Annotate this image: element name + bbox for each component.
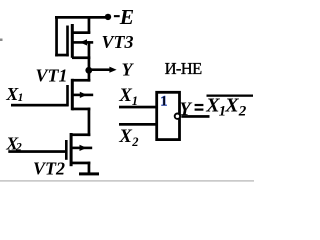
ground <box>79 172 99 175</box>
wire: gate input 2 <box>119 123 156 126</box>
VT1 gate bar <box>66 85 69 106</box>
VT1 channel bar <box>71 79 74 111</box>
wire: horizontal gate feed to VT3 gate bar <box>55 54 68 57</box>
node Y junction dot <box>85 67 92 74</box>
transistor VT3 <box>66 16 133 59</box>
VT1 substrate lead <box>72 94 93 97</box>
label formula Y = X1X2 (NAND output) <box>179 94 253 120</box>
wire: node Y down to VT1 drain <box>88 70 91 81</box>
VT2 gate bar <box>65 140 68 160</box>
VT3 substrate arrow (points left) <box>80 39 87 45</box>
svg-text:VT2: VT2 <box>33 159 65 179</box>
svg-text:VT1: VT1 <box>36 66 68 86</box>
svg-text:VT3: VT3 <box>102 32 134 52</box>
logic gate U1 (NAND box) <box>118 85 209 149</box>
svg-text:1: 1 <box>132 94 138 108</box>
svg-text:E: E <box>119 5 134 29</box>
VT3 drain lead <box>72 31 90 34</box>
wire: output arrow lead to label Y <box>89 68 111 71</box>
VT2 drain lead <box>71 133 91 136</box>
= sign top bar <box>195 104 204 106</box>
inversion bubble <box>175 114 180 119</box>
wire: VT3 substrate/source vertical down to node Y <box>88 41 91 71</box>
wire: input X1 to VT1 gate <box>11 104 69 107</box>
svg-text:X: X <box>118 126 133 147</box>
VT3 gate bar <box>66 26 69 57</box>
svg-text:И-НЕ: И-НЕ <box>165 59 203 78</box>
wire: gate output lead <box>181 115 209 118</box>
VT2 substrate arrow (points right) <box>80 145 87 151</box>
gate box body <box>157 92 180 139</box>
VT1 source lead <box>72 108 90 111</box>
wire: top supply rail to -E <box>55 16 109 19</box>
wire: gate input 1 <box>119 106 156 109</box>
VT3 channel bar <box>71 24 74 58</box>
VT3 source lead <box>72 56 90 59</box>
VT1 substrate arrow (points right) <box>80 92 87 98</box>
wire: input X2 to VT2 gate <box>8 150 67 153</box>
wire: left vertical from rail down to VT3 gate loop <box>55 16 58 56</box>
= sign bottom bar <box>195 109 204 111</box>
svg-text:2: 2 <box>15 141 22 153</box>
scan artifact: faint bottom rule <box>0 180 254 181</box>
VT1 drain lead <box>72 79 90 82</box>
VT2 substrate lead <box>71 147 92 150</box>
wire: VT2 source down to ground <box>88 162 91 174</box>
VT3 substrate lead <box>72 41 93 44</box>
transistor VT1 <box>36 66 94 111</box>
wire: VT3 drain vertical to rail <box>88 16 91 34</box>
wire: VT1 source down to VT2 drain <box>88 108 91 137</box>
label -E (minus) <box>114 15 120 17</box>
svg-text:X: X <box>224 94 239 116</box>
scan speck left edge <box>0 39 3 42</box>
svg-text:2: 2 <box>238 104 247 120</box>
svg-text:2: 2 <box>131 135 138 149</box>
VT2 source lead <box>71 162 91 165</box>
node: junction dot at -E <box>105 14 111 20</box>
overline over X1X2 <box>207 95 254 97</box>
VT2 channel bar <box>70 133 73 166</box>
svg-text:1: 1 <box>160 94 167 110</box>
transistor VT2 <box>33 133 92 179</box>
svg-text:1: 1 <box>18 92 24 104</box>
arrowhead of Y output <box>109 67 116 73</box>
